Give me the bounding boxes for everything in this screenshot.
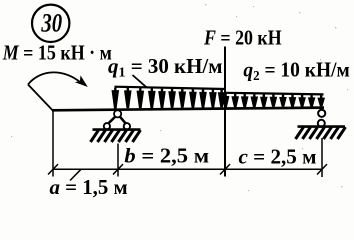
distributed load q1 line [115,87,226,89]
dimension tick at x=118 [113,164,123,174]
distributed load q2 line [225,93,324,95]
extension line at beam left end [52,111,54,177]
moment arrow M [28,72,88,110]
label M = 15 kN*m [2,42,112,65]
task number circle 30 [32,5,69,42]
svg-text:F = 20 кН: F = 20 кН [203,27,282,50]
svg-text:a = 1,5 м: a = 1,5 м [50,175,128,199]
svg-text:b = 2,5 м: b = 2,5 м [124,144,209,167]
label q1 = 30 kN/m [108,54,223,81]
svg-text:c = 2,5 м: c = 2,5 м [239,145,317,169]
force F arrow [222,47,229,177]
ground hatching under pin support [91,130,141,142]
extension line under pin support [117,144,119,177]
ground hatching under roller support [296,127,346,139]
svg-text:30: 30 [41,9,63,38]
distributed load q1 arrows [112,88,226,109]
label a = 1,5 m [50,175,128,199]
svg-text:q2 = 10 кН/м: q2 = 10 кН/м [243,59,350,83]
extension line under roller support [321,138,323,177]
roller support (right, hinge B) [318,110,326,127]
svg-text:q1 = 30 кН/м: q1 = 30 кН/м [108,54,223,81]
label q2 = 10 kN/m [243,59,350,83]
svg-text:M = 15 кН · м: M = 15 кН · м [2,42,112,65]
scan noise specks [11,4,348,191]
dimension tick at x=53 [48,164,58,174]
distributed load q2 arrows [222,94,325,108]
dimension tick at x=225 [220,164,230,174]
label F = 20 kN [203,27,282,50]
dimension line [53,168,322,170]
label c = 2,5 m [239,145,317,169]
leader line from a label [70,169,81,180]
label b = 2,5 m [124,144,209,167]
beam [52,108,324,111]
leader line from q1 label [133,75,147,87]
dimension tick at x=322 [317,164,327,174]
pin support (left, hinge A) [104,110,130,129]
